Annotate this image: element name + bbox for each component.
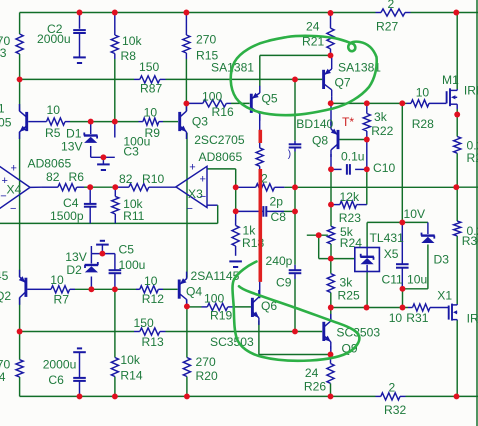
svg-text:0.1u: 0.1u — [341, 150, 365, 164]
wire y103 row R16-Q5 — [231, 102, 250, 104]
wire Q2 collector — [19, 300, 21, 332]
svg-text:TL431: TL431 — [370, 231, 405, 245]
ground below D1 — [97, 163, 110, 165]
wire R25 leads — [330, 259, 332, 274]
wire Q8 collector down — [330, 154, 332, 169]
wire X1 source down — [456, 321, 458, 397]
wire R19 row — [187, 306, 202, 308]
wire top +rail — [20, 12, 376, 14]
transistor Q8 BD140 — [337, 130, 340, 149]
transistor Q9 SC3503 — [322, 322, 325, 341]
svg-text:24: 24 — [305, 366, 319, 380]
svg-text:R14: R14 — [120, 369, 142, 383]
resistor R4 270 — [16, 360, 23, 377]
svg-text:R12: R12 — [142, 292, 164, 306]
node D1/C3/ground link — [90, 146, 92, 157]
wire bottom rail right of R32 — [406, 395, 478, 397]
wire Q5 collector to Q6 collector — [259, 116, 261, 148]
ground below C2 — [73, 56, 86, 58]
svg-text:2SA1145: 2SA1145 — [0, 269, 9, 283]
svg-text:Q7: Q7 — [335, 76, 351, 90]
wire 10V row — [367, 221, 428, 223]
wire R11 leads — [114, 187, 116, 196]
svg-text:+: + — [2, 175, 8, 187]
wire R22-C10 link — [366, 140, 368, 170]
resistor R3 270 — [16, 34, 23, 54]
svg-text:R25: R25 — [338, 289, 360, 303]
svg-text:Q2: Q2 — [0, 289, 11, 303]
ground above C6 — [77, 347, 82, 349]
wire R26 leads — [330, 355, 332, 364]
wire C11 leads — [401, 222, 403, 264]
svg-text:10: 10 — [50, 273, 64, 287]
svg-text:X4: X4 — [7, 183, 22, 197]
wire Q4 emitter — [185, 278, 188, 279]
svg-text:IRF: IRF — [464, 83, 478, 97]
transistor Q6 SC3503 — [251, 298, 254, 317]
wire R6-R10 link — [90, 186, 115, 188]
resistor R24 5k — [327, 226, 334, 244]
wire R8 column — [114, 13, 116, 30]
wire M1 gate lead — [429, 102, 446, 104]
wire Q5 emitter up — [259, 55, 261, 86]
svg-text:R26: R26 — [304, 380, 326, 394]
wire R29 leads — [456, 109, 458, 137]
svg-text:Q8: Q8 — [312, 133, 328, 147]
svg-text:C11: C11 — [382, 273, 404, 287]
svg-text:C3: C3 — [123, 145, 139, 159]
svg-text:13V: 13V — [65, 250, 87, 264]
resistor vertical in Q5 collector — [256, 148, 263, 166]
capacitor above C9 unnamed — [289, 143, 302, 145]
wire Q1 collector — [19, 79, 21, 108]
svg-text:Q1: Q1 — [0, 102, 5, 116]
wire Q3 collector up — [185, 103, 187, 111]
svg-text:82: 82 — [119, 172, 133, 186]
svg-text:3k: 3k — [340, 275, 354, 289]
svg-text:R28: R28 — [412, 117, 434, 131]
resistor R17 2 — [256, 184, 275, 191]
wire Q8 emitter up — [330, 103, 332, 125]
wire Q8 base — [339, 139, 366, 141]
resistor R5 10 — [47, 118, 66, 125]
wire x295 column bottom — [294, 279, 296, 331]
svg-text:2000u: 2000u — [43, 357, 77, 371]
svg-text:AD8065: AD8065 — [199, 150, 243, 164]
wire C10 row — [331, 168, 342, 170]
wire x295 column mid — [294, 152, 296, 188]
resistor R26 24 — [327, 364, 334, 384]
wire y331 row — [20, 331, 134, 333]
wire R15 column — [185, 13, 187, 30]
svg-text:10k: 10k — [122, 34, 142, 48]
svg-text:C6: C6 — [48, 373, 64, 387]
svg-text:−: − — [187, 203, 193, 215]
wire x295 column top — [294, 79, 296, 140]
svg-text:10: 10 — [144, 274, 158, 288]
op-amp X4 AD8065 — [0, 165, 30, 209]
svg-text:R11: R11 — [123, 209, 145, 223]
svg-text:R27: R27 — [376, 20, 398, 34]
svg-text:BD140: BD140 — [296, 117, 333, 131]
mosfet M1 IRF — [446, 91, 448, 103]
svg-text:R30: R30 — [462, 234, 478, 248]
red annotation line — [258, 130, 262, 143]
wire y79 rail right of R87 — [166, 78, 323, 80]
green annotation loop around Q6/Q9 — [233, 262, 360, 361]
svg-text:R31: R31 — [406, 311, 428, 325]
wire C4 leads — [89, 187, 91, 204]
svg-text:150: 150 — [139, 60, 159, 74]
wire X4 output — [30, 186, 42, 188]
svg-text:AD8065: AD8065 — [28, 157, 72, 171]
svg-text:R24: R24 — [340, 236, 362, 250]
svg-text:T*: T* — [342, 115, 354, 129]
wire R4 leads — [19, 332, 21, 360]
wire R24 leads — [330, 205, 332, 227]
resistor R13 150 — [140, 328, 160, 335]
capacitor C8 2p — [262, 206, 264, 217]
wire Q4 collector — [186, 299, 188, 306]
resistor R87 150 — [140, 76, 160, 83]
svg-text:R4: R4 — [0, 370, 6, 384]
diode D3 zener — [421, 234, 435, 236]
wire y103 row right — [331, 102, 407, 104]
diode D1 13V zener — [90, 122, 92, 134]
wire x402 column — [401, 103, 403, 222]
svg-text:X5: X5 — [384, 247, 399, 261]
wire Q3.e X3 Q4.e column — [186, 133, 188, 278]
wire D2 anode — [90, 277, 92, 290]
wire X3 +in path — [207, 168, 236, 170]
svg-text:10k: 10k — [120, 353, 140, 367]
capacitor C6 2000u — [73, 377, 86, 379]
svg-text:10: 10 — [144, 105, 158, 119]
svg-text:R23: R23 — [339, 211, 361, 225]
svg-text:2p: 2p — [270, 195, 284, 209]
wire R30 leads — [456, 187, 458, 221]
svg-text:R32: R32 — [384, 403, 406, 417]
wire x331 link — [330, 169, 332, 204]
wire R21 leads — [330, 13, 332, 28]
svg-text:10: 10 — [389, 311, 403, 325]
wire C5 leads — [114, 254, 116, 271]
svg-text:R19: R19 — [210, 309, 232, 323]
svg-text:10V: 10V — [404, 207, 426, 221]
wire C6 column — [79, 352, 81, 378]
resistor R18 1k — [232, 226, 239, 247]
capacitor C4 1500p — [84, 203, 97, 205]
svg-text:R87: R87 — [140, 82, 162, 96]
svg-text:Q4: Q4 — [186, 285, 202, 299]
wire R20 column — [186, 306, 188, 357]
svg-text:−: − — [0, 191, 6, 203]
svg-text:Q3: Q3 — [192, 115, 208, 129]
resistor R6 82 — [58, 184, 77, 191]
resistor R11 10k — [112, 196, 119, 214]
svg-text:2SC2705: 2SC2705 — [194, 133, 245, 147]
resistor R25 3k — [327, 274, 334, 293]
svg-text:Q5: Q5 — [262, 92, 278, 106]
resistor R7 10 — [51, 286, 70, 293]
wire - y79 rail left — [20, 78, 134, 80]
svg-text:−: − — [10, 203, 16, 215]
wire Q9 collector up — [330, 308, 332, 318]
svg-text:R22: R22 — [371, 124, 393, 138]
svg-text:M1: M1 — [442, 73, 459, 87]
wire x366 to R23 — [366, 169, 368, 204]
resistor R22 3k — [363, 114, 370, 132]
junction dots — [77, 10, 83, 16]
svg-text:13V: 13V — [61, 140, 83, 154]
wire y289 base row — [75, 288, 136, 290]
resistor R20 270 — [183, 358, 190, 377]
svg-text:10: 10 — [416, 86, 430, 100]
wire top +rail right of R27 — [411, 12, 478, 14]
svg-text:270: 270 — [196, 355, 216, 369]
wire y307 row — [331, 307, 408, 309]
resistor R8 10k — [111, 35, 118, 54]
svg-text:2: 2 — [388, 0, 395, 11]
svg-text:10u: 10u — [407, 273, 427, 287]
wire X1 gate lead — [430, 307, 449, 309]
svg-text:R29: R29 — [467, 151, 478, 165]
wire Q9 emitter down — [330, 346, 332, 355]
svg-text:24: 24 — [306, 20, 320, 34]
resistor R27 2 — [381, 9, 405, 16]
svg-text:D2: D2 — [66, 263, 82, 277]
resistor R16 100 — [203, 100, 227, 107]
wire y55 row Q5-Q7 — [260, 54, 331, 56]
svg-text:R7: R7 — [54, 293, 70, 307]
svg-text:R5: R5 — [45, 126, 61, 140]
svg-text:R16: R16 — [212, 105, 234, 119]
wire output rail right — [456, 186, 478, 188]
wire Q6 emitter path — [258, 321, 260, 355]
svg-text:X1: X1 — [437, 289, 452, 303]
capacitor C11 10u — [396, 263, 409, 265]
wire TL431 ref — [307, 234, 328, 236]
svg-text:3k: 3k — [374, 110, 388, 124]
svg-text:R8: R8 — [121, 49, 137, 63]
svg-text:C8: C8 — [271, 210, 287, 224]
wire M1 drain — [456, 13, 458, 90]
diode D2 13V zener — [90, 254, 92, 264]
svg-text:D1: D1 — [66, 127, 82, 141]
resistor R30 0.2 — [454, 221, 461, 236]
transistor Q4 2SA1145 — [178, 280, 181, 299]
wire C2 column — [79, 13, 81, 29]
svg-text:100: 100 — [204, 292, 224, 306]
svg-text:+: + — [200, 174, 206, 186]
svg-text:R9: R9 — [145, 126, 161, 140]
transistor Q1 2SC2705 — [25, 112, 28, 131]
wire Q7 collector down — [331, 97, 333, 103]
svg-text:R3: R3 — [0, 46, 7, 60]
wire Q9 collector join — [330, 318, 332, 321]
svg-text:1500p: 1500p — [50, 209, 84, 223]
resistor R10 82 — [129, 184, 149, 191]
resistor R14 10k — [111, 358, 118, 377]
wire TL431 anode — [366, 272, 368, 308]
wire X3 -in path — [207, 204, 218, 206]
svg-text:2: 2 — [389, 381, 396, 395]
transistor Q2 2SA1145 — [24, 278, 27, 297]
svg-text:R20: R20 — [196, 369, 218, 383]
ground below R18 — [229, 260, 242, 262]
svg-text:C9: C9 — [276, 276, 292, 290]
svg-text:): ) — [288, 149, 291, 160]
wire R14 column — [114, 289, 116, 357]
resistor R29 0.2 — [454, 137, 461, 154]
svg-text:+: + — [189, 162, 195, 174]
resistor R21 24 — [327, 28, 334, 49]
svg-text:IR: IR — [467, 312, 478, 326]
wire C8 leads — [236, 210, 263, 212]
wire y121 to Q3 — [163, 121, 178, 123]
wire Q2 base — [27, 288, 42, 290]
capacitor C10 0.1u — [346, 164, 348, 175]
svg-text:150: 150 — [134, 316, 154, 330]
resistor R31 10 — [413, 304, 431, 311]
tl431 X5 box — [355, 248, 380, 272]
resistor R15 270 — [183, 35, 190, 53]
ground above D2 — [100, 240, 105, 242]
wire Q7 emitter up — [331, 55, 333, 62]
svg-text:R13: R13 — [142, 335, 164, 349]
svg-text:+: + — [11, 163, 17, 175]
svg-text:R6: R6 — [69, 170, 85, 184]
capacitor C3 100u — [114, 122, 116, 138]
wire D3 leads — [427, 222, 429, 234]
wire R3 top lead — [19, 13, 21, 35]
mosfet X1 IRF — [448, 306, 450, 320]
op-amp X3 AD8065 — [176, 166, 207, 207]
svg-text:C10: C10 — [373, 161, 395, 175]
wire right edge vertical — [476, 0, 478, 426]
wire C9 leads — [294, 265, 296, 270]
svg-text:10: 10 — [47, 103, 61, 117]
resistor R23 12k — [340, 201, 357, 208]
svg-text:R10: R10 — [142, 172, 164, 186]
resistor R12 10 — [140, 286, 159, 293]
wire x295 mid cap leads — [294, 141, 296, 145]
svg-text:C5: C5 — [119, 243, 135, 257]
svg-text:100: 100 — [202, 90, 222, 104]
wire bottom rail — [20, 395, 376, 397]
svg-text:2000u: 2000u — [37, 32, 71, 46]
svg-text:12k: 12k — [340, 190, 360, 204]
wire y121 base row — [70, 121, 139, 123]
svg-text:270: 270 — [196, 33, 216, 47]
transistor Q3 2SC2705 — [178, 112, 181, 131]
transistor Q5 SA1381 — [250, 94, 253, 113]
svg-text:82: 82 — [46, 170, 60, 184]
resistor R19 100 — [207, 303, 227, 310]
wire R17 leads — [236, 186, 256, 188]
svg-text:100u: 100u — [119, 258, 146, 272]
capacitor C5 100u — [109, 269, 122, 271]
wire X4/X3 power column — [19, 135, 21, 276]
wire feedback rail y223 — [0, 222, 218, 224]
svg-text:D3: D3 — [434, 253, 450, 267]
wire Q1 base — [28, 121, 42, 123]
svg-text:SC3503: SC3503 — [210, 335, 254, 349]
transistor Q7 SA1381 — [322, 70, 325, 89]
resistor R28 10 — [411, 100, 429, 107]
wire output rail y187 — [284, 186, 456, 188]
capacitor C9 240p — [289, 269, 302, 271]
capacitor C2 2000u — [73, 29, 86, 31]
svg-text:−: − — [200, 191, 206, 203]
svg-text:2SC2705: 2SC2705 — [0, 116, 12, 130]
resistor R32 2 — [381, 393, 400, 400]
node D2/C5/ground link — [90, 246, 92, 254]
svg-text:240p: 240p — [266, 254, 293, 268]
resistor R9 10 — [143, 118, 159, 125]
green annotation loop around Q5/Q7 — [231, 36, 377, 115]
wire TL431 cathode — [366, 222, 368, 247]
wire D3 to C11 — [403, 288, 428, 290]
